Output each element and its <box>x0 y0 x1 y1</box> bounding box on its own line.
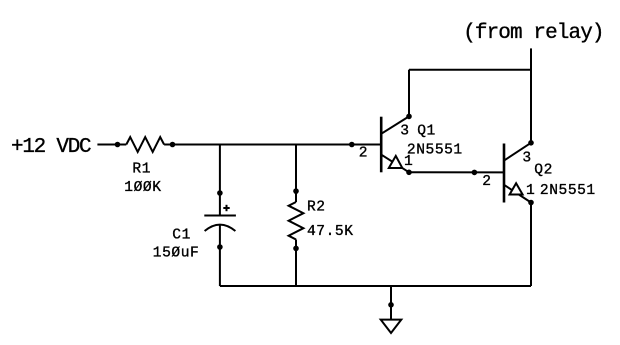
svg-text:R1: R1 <box>132 162 151 178</box>
svg-text:1: 1 <box>526 183 535 199</box>
svg-text:2N5551: 2N5551 <box>540 183 596 199</box>
capacitor C1 <box>204 190 236 250</box>
svg-text:2: 2 <box>482 174 491 190</box>
resistor R1 <box>115 137 176 152</box>
wire: +12V input lead into R1 <box>97 144 117 146</box>
svg-text:Q2: Q2 <box>534 162 553 178</box>
svg-text:+12 VDC: +12 VDC <box>11 136 91 159</box>
wire: main node from R1 to Q1 base pin <box>173 144 382 146</box>
svg-text:47.5K: 47.5K <box>307 224 354 240</box>
wire: relay feed down to Q2 collector <box>530 48 532 142</box>
transistor Q1 <box>381 114 412 176</box>
ground <box>381 286 402 333</box>
wire: C1 bottom lead to ground rail <box>219 225 221 286</box>
svg-text:3: 3 <box>522 151 531 167</box>
svg-text:1ØØK: 1ØØK <box>124 180 161 196</box>
svg-text:Q1: Q1 <box>417 124 436 140</box>
svg-text:R2: R2 <box>307 200 326 216</box>
wire: Q1 collector up <box>408 70 410 117</box>
wire: Q1 emitter to Q2 base <box>409 171 504 173</box>
svg-text:3: 3 <box>400 123 409 139</box>
svg-text:2: 2 <box>359 146 368 162</box>
wire: top rail across <box>409 69 531 71</box>
wire: branch down to R2 <box>295 145 297 203</box>
transistor Q2 <box>504 140 534 205</box>
node: Q1 base pin junction dot <box>349 142 355 148</box>
wire: ground rail <box>220 285 531 287</box>
wire: Q2 emitter down to ground rail <box>530 203 532 287</box>
resistor R2 <box>289 188 304 251</box>
svg-text:2N5551: 2N5551 <box>407 142 463 158</box>
node: Q2 base pin junction dot <box>472 170 478 176</box>
svg-text:15ØuF: 15ØuF <box>153 246 200 262</box>
wire: branch down to C1 <box>219 145 221 216</box>
svg-text:(from relay): (from relay) <box>463 22 603 45</box>
svg-text:C1: C1 <box>172 227 191 243</box>
wire: R2 bottom lead to ground rail <box>295 240 297 287</box>
